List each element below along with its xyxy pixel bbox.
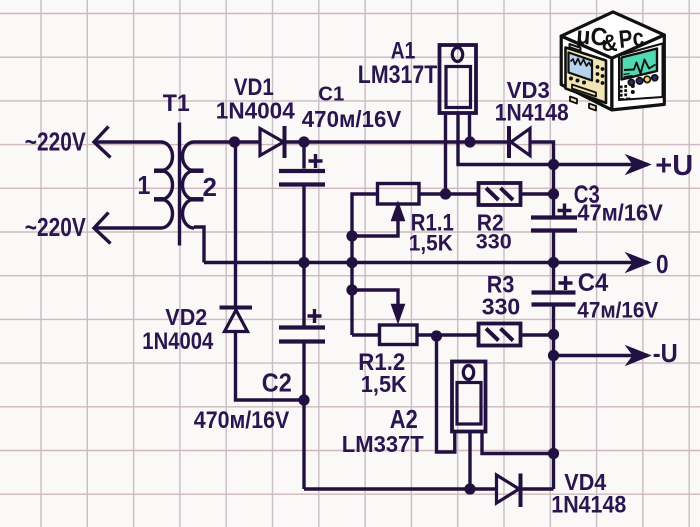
R2 slash 2 bbox=[501, 188, 514, 200]
A1 right leg (in) bbox=[468, 113, 471, 142]
diode VD2 cathode bar bbox=[220, 306, 253, 310]
svg-text:~220V: ~220V bbox=[25, 213, 86, 242]
node secondary/VD2 bbox=[229, 136, 240, 147]
node R1.2/R3 bbox=[431, 330, 442, 341]
node -U bbox=[548, 350, 559, 361]
logo uC & Pc bbox=[561, 12, 664, 111]
arrow -U bbox=[628, 347, 650, 364]
T1 secondary winding tick 2 bbox=[191, 197, 204, 202]
logo cube left face bbox=[561, 36, 612, 110]
wire top-left input lower bbox=[94, 226, 161, 229]
arrow +U bbox=[628, 156, 650, 173]
R1.1 left lead bbox=[352, 194, 378, 335]
transformer T1 core bbox=[178, 123, 181, 246]
R1.2 left lead bbox=[352, 333, 380, 336]
R3 slash 1 bbox=[486, 329, 499, 341]
resistor R1.1 body bbox=[378, 184, 420, 205]
node A2 input bbox=[464, 483, 475, 494]
logo oscilloscope top handle bbox=[570, 44, 581, 51]
wire VD2 branch vertical bbox=[234, 142, 237, 306]
resistor R1.2 body bbox=[380, 325, 418, 345]
logo oscilloscope feet bbox=[570, 97, 596, 111]
svg-text:VD2: VD2 bbox=[165, 304, 207, 330]
capacitor C3 plus bbox=[558, 204, 572, 218]
svg-text:1N4004: 1N4004 bbox=[142, 327, 214, 354]
R3 right lead bbox=[521, 333, 554, 336]
svg-text:C2: C2 bbox=[262, 369, 292, 397]
arrow input lower bbox=[94, 213, 111, 244]
R2 right lead bbox=[521, 192, 554, 195]
T1 primary winding tick 1 bbox=[154, 168, 164, 173]
node C1/C2 mid bbox=[298, 257, 309, 268]
logo oscilloscope waveform bbox=[571, 59, 592, 67]
svg-text:1: 1 bbox=[137, 172, 150, 200]
capacitor C1 plate bottom bbox=[279, 182, 325, 186]
logo oscilloscope screen bbox=[569, 53, 593, 81]
R1.1 right lead bbox=[419, 192, 479, 195]
A1 left leg (adj) bbox=[444, 113, 447, 194]
capacitor C4 plate bottom bbox=[532, 302, 576, 306]
resistor R3 body bbox=[479, 324, 521, 346]
wire secondary bottom corner bbox=[194, 227, 204, 263]
R2 slash 1 bbox=[486, 188, 499, 200]
node pots common bbox=[346, 257, 357, 268]
capacitor C2 plate top bbox=[279, 325, 325, 329]
arrow input upper bbox=[94, 127, 111, 158]
wire C3 chain bbox=[552, 165, 555, 216]
svg-text:C4: C4 bbox=[578, 270, 609, 298]
svg-text:1,5K: 1,5K bbox=[361, 370, 408, 397]
svg-text:47м/16V: 47м/16V bbox=[577, 200, 663, 226]
diode VD1 cathode bar bbox=[283, 126, 287, 158]
capacitor C1 plate top bbox=[279, 169, 325, 173]
regulator A2 hole bbox=[463, 366, 473, 380]
arrow 0 bbox=[628, 254, 650, 271]
node A1 adj bbox=[440, 188, 451, 199]
svg-text:T1: T1 bbox=[163, 90, 190, 116]
svg-text:330: 330 bbox=[482, 294, 520, 320]
wire -U rail bbox=[554, 354, 649, 357]
T1 primary winding tick 2 bbox=[154, 197, 164, 202]
resistor R2 body bbox=[479, 183, 521, 205]
svg-text:C1: C1 bbox=[318, 83, 344, 105]
node C3/C4 mid bbox=[548, 257, 559, 268]
regulator A2 package outline bbox=[452, 362, 486, 432]
R3 slash 2 bbox=[501, 329, 514, 341]
svg-text:47м/16V: 47м/16V bbox=[577, 297, 658, 323]
capacitor C3 plate bottom bbox=[531, 228, 577, 232]
wire 0 rail bbox=[204, 261, 648, 264]
wire secondary top to VD1 bbox=[194, 140, 260, 143]
logo instrument knobs bbox=[628, 75, 658, 86]
logo instrument label marks bbox=[624, 74, 633, 78]
node A1 input bbox=[464, 136, 475, 147]
R1.2 wiper arrowhead bbox=[393, 306, 403, 320]
logo instrument waveform bbox=[624, 60, 656, 74]
node +U bbox=[548, 159, 559, 170]
svg-text:1,5K: 1,5K bbox=[409, 231, 453, 256]
svg-text:1N4148: 1N4148 bbox=[495, 99, 569, 126]
diode VD4 bbox=[497, 475, 520, 503]
logo instrument screen bbox=[622, 49, 658, 80]
node R2/C3 bbox=[548, 188, 559, 199]
wire VD3 anode to +U node bbox=[530, 142, 554, 165]
diode VD2 bbox=[225, 310, 248, 332]
capacitor C2 plate bottom bbox=[279, 339, 325, 343]
svg-text:+U: +U bbox=[655, 150, 693, 182]
svg-text:470м/16V: 470м/16V bbox=[194, 406, 289, 433]
svg-text:-U: -U bbox=[653, 339, 678, 368]
capacitor C1 plus bbox=[309, 154, 323, 168]
R1.1 wiper bbox=[352, 218, 398, 236]
diode VD4 cathode bar bbox=[519, 474, 523, 508]
logo oscilloscope body bbox=[566, 48, 607, 104]
node VD1/C1 bbox=[298, 136, 309, 147]
node R3/C4 bbox=[548, 329, 559, 340]
svg-text:LM317T: LM317T bbox=[358, 60, 437, 88]
R1.2 wiper bbox=[352, 290, 398, 306]
wire C1 bottom to C2 top bbox=[302, 187, 305, 326]
regulator A1 hole bbox=[452, 48, 462, 62]
A1 middle leg (out) bbox=[458, 113, 554, 165]
wire C2 bottom bbox=[302, 344, 305, 490]
wire bottom rail bbox=[304, 487, 497, 490]
R1.2 right lead to R3 bbox=[417, 333, 479, 336]
regulator A1 body bbox=[446, 67, 471, 108]
svg-text:0: 0 bbox=[656, 251, 669, 280]
svg-text:1N4004: 1N4004 bbox=[216, 97, 295, 123]
T1 primary winding bbox=[161, 142, 173, 228]
diode VD3 bbox=[511, 129, 530, 156]
T1 secondary winding tick 1 bbox=[191, 168, 204, 173]
wire A2 adjust chain bbox=[437, 336, 455, 452]
logo instrument dip switches bbox=[620, 84, 635, 100]
diode VD3 cathode bar bbox=[507, 126, 511, 158]
capacitor C2 plus bbox=[308, 309, 322, 323]
R1.1 wiper arrowhead bbox=[393, 206, 403, 220]
svg-text:A2: A2 bbox=[390, 405, 418, 434]
node A2 out bbox=[548, 448, 559, 459]
capacitor C3 plate top bbox=[531, 215, 577, 219]
wire VD1 to C1 node bbox=[285, 140, 510, 143]
regulator A2 body bbox=[457, 383, 481, 425]
T1 secondary winding bbox=[182, 142, 194, 228]
A2 middle leg bbox=[468, 432, 471, 490]
capacitor C4 plus bbox=[559, 276, 573, 290]
svg-text:1N4148: 1N4148 bbox=[551, 490, 626, 517]
svg-text:LM337T: LM337T bbox=[342, 432, 424, 458]
svg-text:2: 2 bbox=[203, 172, 217, 202]
wire top-left input upper bbox=[94, 140, 161, 143]
node VD2/C2 bbox=[298, 394, 309, 405]
wire C4 bottom down right vertical bbox=[552, 307, 555, 490]
svg-text:330: 330 bbox=[476, 230, 512, 254]
wire C1 top bbox=[302, 142, 305, 169]
wire +U rail bbox=[554, 163, 649, 166]
svg-text:~220V: ~220V bbox=[25, 127, 86, 156]
logo cube right face bbox=[612, 35, 664, 110]
A2 right leg bbox=[482, 432, 554, 454]
diode VD1 bbox=[260, 129, 284, 156]
logo oscilloscope side buttons bbox=[569, 65, 604, 85]
regulator A1 package outline bbox=[440, 45, 477, 113]
svg-text:470м/16V: 470м/16V bbox=[302, 107, 401, 132]
logo cube top face bbox=[561, 12, 664, 58]
logo oscilloscope slot bbox=[572, 85, 596, 97]
wire VD4 to right vertical bbox=[521, 487, 554, 490]
capacitor C4 plate top bbox=[532, 290, 576, 294]
node R1.1 wiper bbox=[346, 230, 357, 241]
wire VD2 anode down bbox=[236, 332, 305, 401]
logo instrument panel outline bbox=[619, 44, 663, 101]
svg-text:&: & bbox=[602, 29, 618, 56]
node R1.2 wiper bbox=[346, 284, 357, 295]
wire C3 bottom to C4 top bbox=[552, 233, 555, 291]
